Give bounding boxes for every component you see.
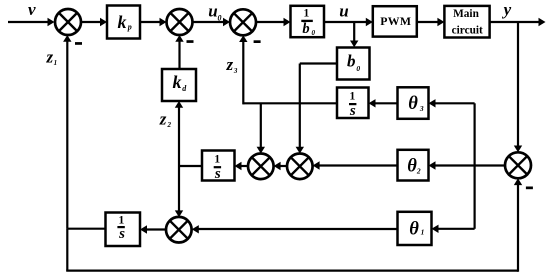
wire: theta3 output into ESO integrator 1/s (upper) xyxy=(369,99,398,107)
svg-text:u: u xyxy=(208,2,217,21)
svg-text:Main: Main xyxy=(453,8,479,20)
summing junction S7 xyxy=(505,152,531,178)
integrator block 1/s (bottom, z1) xyxy=(106,213,141,247)
wire: S3 to 1/b0 block xyxy=(256,18,291,26)
wire: theta2 output left into multiplier M2 xyxy=(313,161,398,169)
wire: z2 rail up into kd block xyxy=(175,101,183,166)
wire: theta1 output left into multiplier M3 xyxy=(192,225,398,233)
multiplier junction M3 xyxy=(166,217,192,243)
svg-text:p: p xyxy=(127,22,132,31)
block Main circuit xyxy=(444,6,489,38)
svg-text:3: 3 xyxy=(233,67,238,75)
svg-text:1: 1 xyxy=(214,154,220,166)
block theta3 xyxy=(398,87,429,119)
wire: Main circuit to output y xyxy=(490,18,546,26)
svg-text:1: 1 xyxy=(54,59,58,67)
svg-text:z: z xyxy=(225,55,233,74)
wire: input v into summing junction S1 xyxy=(8,18,55,26)
minus sign at S2 lower input xyxy=(187,40,194,43)
multiplier junction M1 xyxy=(248,154,274,180)
wire: z3 branch down into multiplier M1 xyxy=(257,103,265,153)
wire: z3 line from 1/s upper left then up into S3 xyxy=(239,35,337,104)
svg-text:0: 0 xyxy=(311,29,315,37)
svg-text:u: u xyxy=(339,2,348,21)
svg-text:k: k xyxy=(118,12,127,32)
svg-text:2: 2 xyxy=(166,121,171,129)
minus sign at S3 lower input xyxy=(254,40,261,43)
block b0 xyxy=(337,48,370,80)
wire: S2 to summing junction S3, node u0 xyxy=(193,18,231,26)
minus sign at S7 lower input xyxy=(526,187,533,190)
wire: M1 output into integrator 1/s (middle) xyxy=(235,162,249,170)
wire: u branch down into b0 block xyxy=(350,22,358,47)
svg-text:k: k xyxy=(173,72,182,92)
svg-text:b: b xyxy=(302,21,309,37)
svg-text:z: z xyxy=(159,109,167,128)
integrator block 1/s (middle, z2) xyxy=(202,151,235,183)
svg-text:d: d xyxy=(182,84,187,93)
svg-text:s: s xyxy=(118,226,125,242)
block 1/b0 xyxy=(291,6,325,37)
svg-text:v: v xyxy=(28,0,36,19)
wire: z2 output from 1/s middle to z2 rail xyxy=(179,165,202,167)
wire: M2 output into multiplier M1 xyxy=(274,162,287,170)
wire: S1 to kp block xyxy=(81,18,107,26)
wire: z1 rail down and along bottom to S7 lower input xyxy=(66,178,522,271)
wire: error branch down to theta1 block xyxy=(432,166,475,234)
svg-text:3: 3 xyxy=(419,104,424,113)
label z1 xyxy=(45,48,57,67)
summing junction S1 xyxy=(55,9,81,35)
wire: z1 output from 1/s bottom to z1 rail xyxy=(67,228,105,230)
svg-text:circuit: circuit xyxy=(452,25,483,37)
svg-text:b: b xyxy=(347,51,356,70)
block PWM xyxy=(373,6,417,36)
wire: S7 output left into theta2 block xyxy=(429,161,506,169)
wire: kd output up into S2 xyxy=(175,35,183,69)
svg-text:1: 1 xyxy=(304,8,310,20)
label z3 xyxy=(225,55,237,75)
block theta2 xyxy=(398,150,429,181)
wire: M3 output into integrator 1/s (bottom) xyxy=(140,225,166,233)
wire: error branch up to theta3 block xyxy=(429,99,475,165)
gain block kd xyxy=(162,69,196,101)
svg-text:y: y xyxy=(502,0,512,19)
svg-text:θ: θ xyxy=(409,219,419,239)
svg-text:z: z xyxy=(45,48,53,67)
summing junction S3 xyxy=(230,9,256,35)
minus sign at S1 lower input xyxy=(75,42,82,45)
svg-text:1: 1 xyxy=(421,228,425,237)
block theta1 xyxy=(398,212,432,245)
summing junction S2 xyxy=(167,9,193,35)
integrator block 1/s (upper, z3) xyxy=(337,88,369,119)
svg-text:θ: θ xyxy=(408,94,418,114)
wire: z1 rail up into S1 xyxy=(63,35,71,229)
svg-text:s: s xyxy=(214,166,221,182)
svg-text:PWM: PWM xyxy=(380,14,411,28)
svg-text:0: 0 xyxy=(218,14,222,23)
svg-text:0: 0 xyxy=(356,64,360,73)
gain block kp xyxy=(107,6,140,39)
label z2 xyxy=(159,109,172,129)
multiplier junction M2 xyxy=(287,154,313,180)
svg-text:1: 1 xyxy=(350,90,356,102)
wire: kp to summing junction S2 xyxy=(140,18,167,26)
svg-text:s: s xyxy=(349,103,356,119)
svg-text:θ: θ xyxy=(407,156,417,176)
wire: y feedback branch down into summing junction S7 xyxy=(514,22,522,152)
wire: z2 rail down into multiplier M3 xyxy=(175,166,183,217)
wire: PWM to Main circuit block xyxy=(417,18,445,26)
label u0 xyxy=(208,2,221,23)
wire: b0 output left then down into multiplier M2 xyxy=(296,64,337,154)
svg-text:1: 1 xyxy=(119,215,125,227)
svg-text:2: 2 xyxy=(416,167,421,176)
wire: 1/b0 to PWM block, node u xyxy=(324,18,373,26)
